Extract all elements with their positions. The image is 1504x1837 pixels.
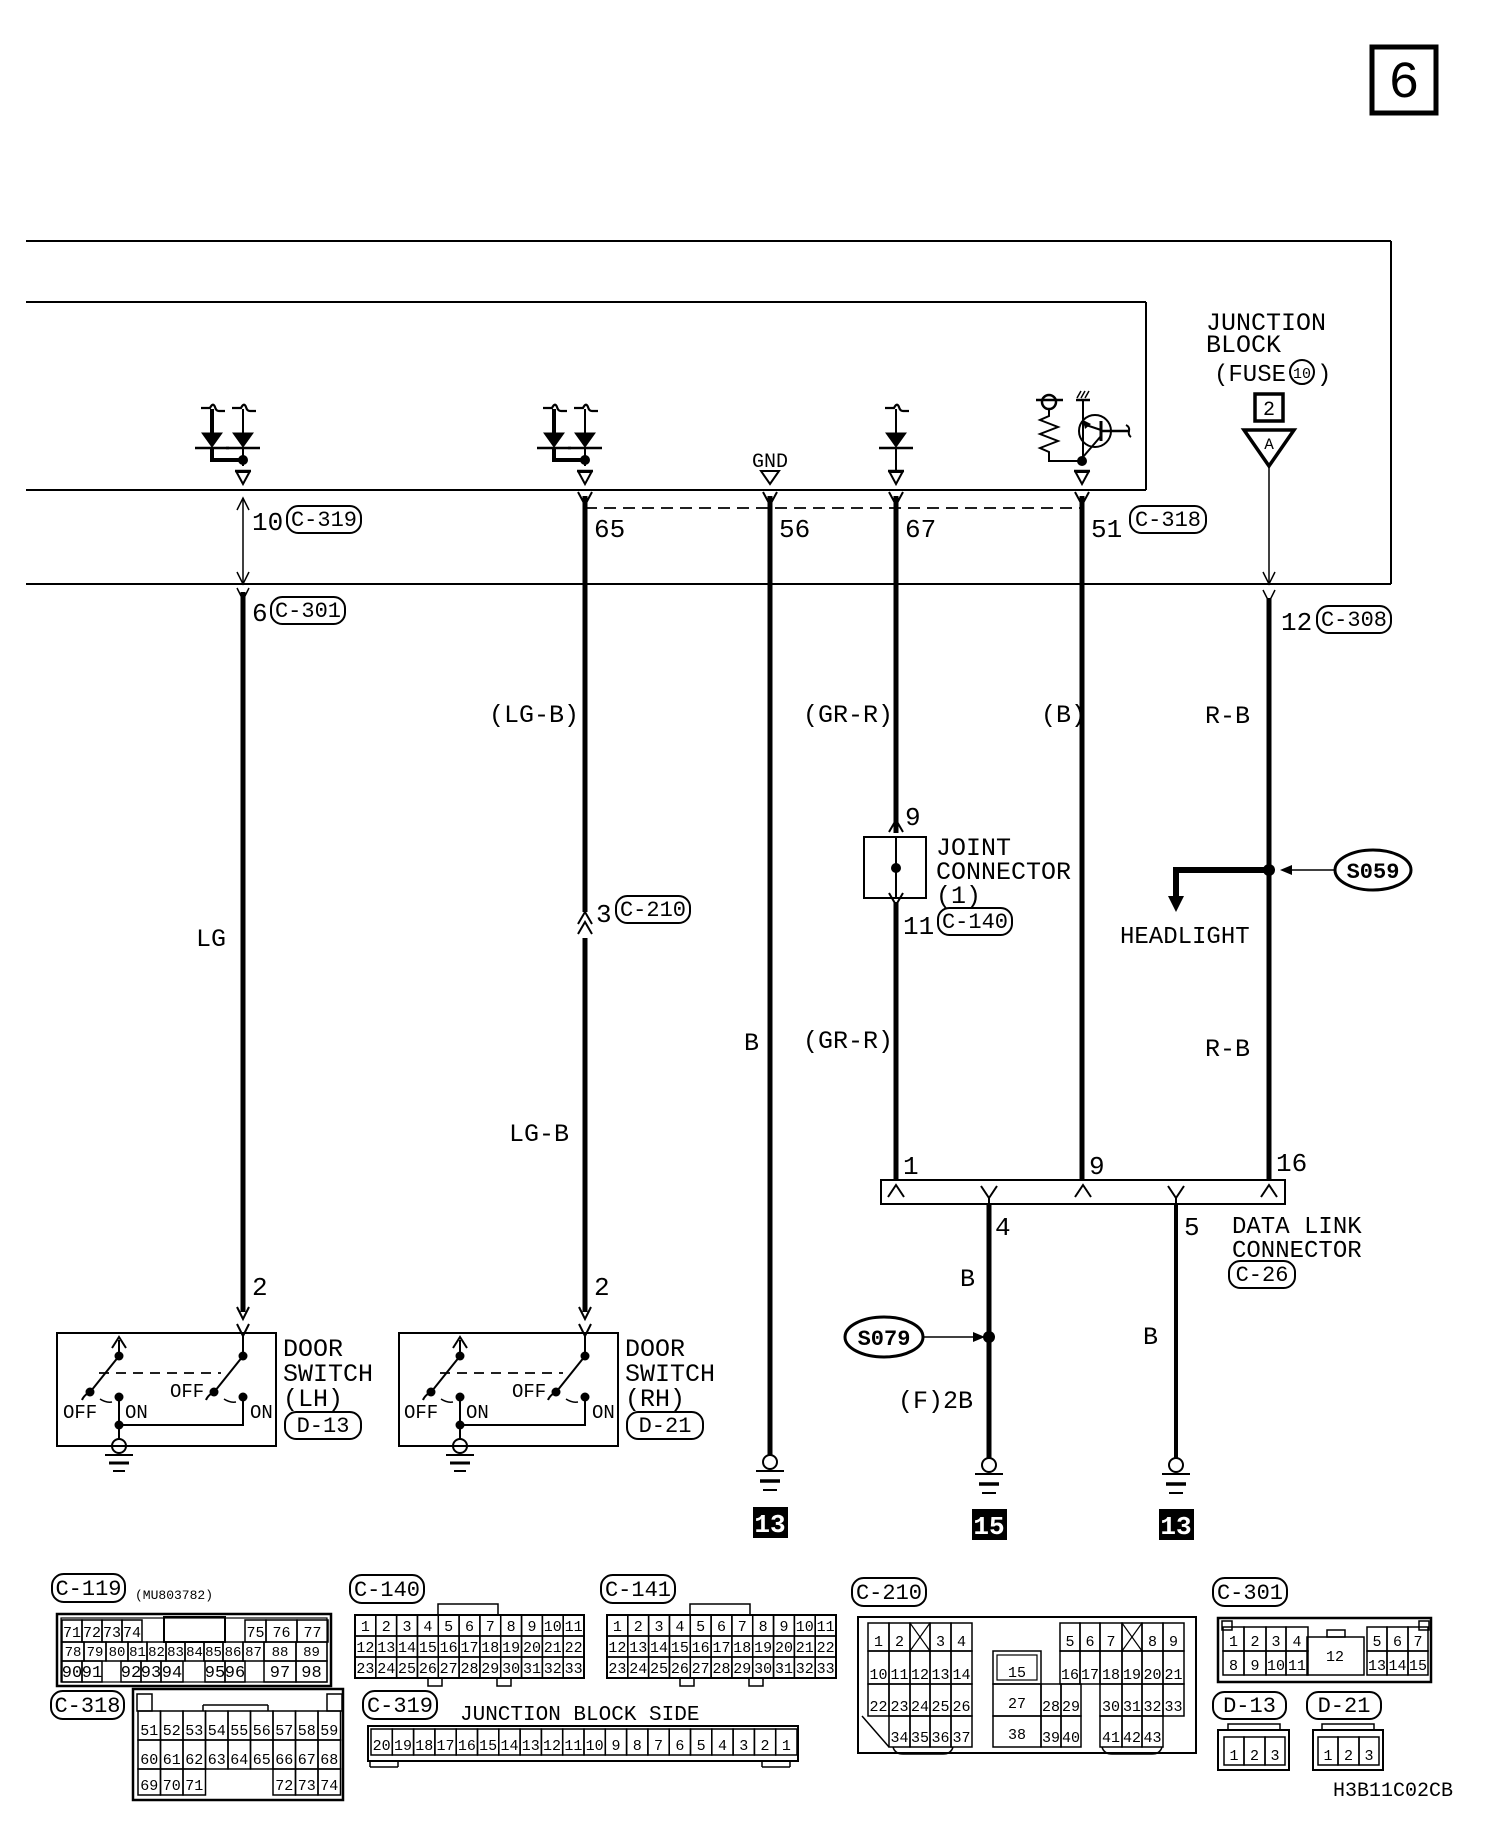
door switch LH internal wire to ground [119,1397,243,1425]
wire: inner module top line [26,301,1146,303]
svg-text:69: 69 [140,1778,158,1795]
svg-text:R-B: R-B [1205,1035,1250,1064]
svg-text:55: 55 [230,1723,248,1740]
wire LG (x=243) from C-301 to door switch LH [241,592,246,1312]
svg-text:14: 14 [1388,1658,1406,1675]
svg-text:9: 9 [1169,1634,1178,1651]
svg-text:5: 5 [697,1738,706,1755]
svg-text:15: 15 [973,1512,1004,1542]
svg-text:3: 3 [739,1738,748,1755]
svg-text:42: 42 [1123,1730,1141,1747]
wire from Q1 base to right with curl [1101,430,1128,433]
svg-text:1: 1 [1229,1748,1238,1765]
svg-text:14: 14 [952,1667,970,1684]
svg-text:81: 81 [129,1645,146,1661]
S059 splice label [1335,850,1411,890]
connector C-119 body [57,1614,331,1686]
svg-text:13: 13 [931,1667,949,1684]
svg-text:13: 13 [754,1510,785,1540]
connector ref D-13 [285,1412,361,1439]
svg-text:12: 12 [608,1640,626,1657]
svg-text:91: 91 [82,1664,102,1683]
chevrons where wire enters LH [237,1307,249,1319]
svg-text:11: 11 [903,912,934,942]
svg-text:D-21: D-21 [639,1414,692,1439]
connector C-210 body [858,1617,1196,1753]
svg-text:C-119: C-119 [55,1577,121,1602]
joint connector (1) box [864,837,926,898]
ground for data link pin 4 wire [982,1458,996,1472]
inner module right edge [1145,302,1147,490]
svg-text:3: 3 [1270,1748,1279,1765]
svg-text:32: 32 [796,1661,814,1678]
svg-text:87: 87 [245,1645,262,1661]
svg-text:31: 31 [523,1661,541,1678]
connector ref C-210 [616,896,690,923]
svg-text:25: 25 [650,1661,668,1678]
door switch RH right ON contact [581,1393,590,1402]
svg-text:41: 41 [1102,1730,1120,1747]
ground (internal) below diode pair 1 [235,470,251,473]
svg-text:98: 98 [301,1664,321,1683]
svg-text:26: 26 [671,1661,689,1678]
svg-text:85: 85 [205,1645,222,1661]
svg-text:10: 10 [586,1738,604,1755]
svg-text:6: 6 [252,599,268,629]
svg-text:C-26: C-26 [1236,1263,1289,1288]
transistor Q1 [1079,415,1111,447]
circled 10 fuse number [1290,360,1314,384]
pin 6 crossing chevron on LG wire [237,588,249,600]
svg-text:95: 95 [205,1664,225,1683]
svg-text:H3B11C02CB: H3B11C02CB [1333,1780,1453,1803]
svg-text:31: 31 [1123,1699,1141,1716]
svg-text:3: 3 [1271,1634,1280,1651]
svg-text:3: 3 [403,1619,412,1636]
svg-text:90: 90 [62,1664,82,1683]
wire branch to headlight [1176,870,1269,896]
door switch LH box [57,1333,276,1446]
page ref 13 (pin 5 wire) [1159,1509,1194,1540]
svg-text:S079: S079 [858,1327,911,1352]
svg-text:67: 67 [905,515,936,545]
svg-text:30: 30 [754,1661,772,1678]
svg-text:9: 9 [611,1738,620,1755]
svg-text:C-140: C-140 [942,910,1008,935]
connector ref C-319 [287,506,361,533]
door switch RH ground [453,1439,467,1453]
svg-text:12: 12 [543,1738,561,1755]
svg-text:67: 67 [298,1752,316,1769]
svg-text:10: 10 [796,1619,814,1636]
svg-text:4: 4 [957,1634,966,1651]
svg-text:2: 2 [1250,1748,1259,1765]
svg-text:4: 4 [423,1619,432,1636]
svg-text:12: 12 [356,1640,374,1657]
chevrons where wire enters RH [579,1307,591,1319]
svg-text:8: 8 [1148,1634,1157,1651]
svg-text:4: 4 [995,1213,1011,1243]
svg-text:20: 20 [523,1640,541,1657]
svg-text:6: 6 [1085,1634,1094,1651]
wire B (x=770) from pin 56 down to ground [768,496,773,1455]
svg-text:74: 74 [320,1778,338,1795]
svg-text:70: 70 [163,1778,181,1795]
connector C-319 label [363,1691,437,1719]
svg-text:52: 52 [163,1723,181,1740]
svg-text:ON: ON [466,1402,489,1424]
svg-text:3: 3 [596,900,612,930]
svg-text:34: 34 [890,1730,908,1747]
page ref 15 [972,1509,1007,1540]
door switch RH dashed gang line [440,1372,563,1374]
connector ref C-318 [1130,506,1206,533]
wire from triangle A down to pin 12 [1268,466,1270,584]
svg-text:30: 30 [502,1661,520,1678]
svg-text:78: 78 [65,1645,82,1661]
svg-text:82: 82 [148,1645,165,1661]
svg-text:75: 75 [246,1625,264,1642]
wire: ECU outer box top bus line [26,240,1391,242]
svg-text:64: 64 [230,1752,248,1769]
chevron below joint connector [889,893,903,905]
door switch LH left blade [91,1356,119,1391]
ECU outer box right edge [1390,241,1392,584]
svg-text:33: 33 [565,1661,583,1678]
svg-text:13: 13 [522,1738,540,1755]
connector D-13 body [1218,1730,1289,1770]
node: diode pair 2 junction [580,455,590,465]
svg-text:14: 14 [398,1640,416,1657]
svg-text:2: 2 [1250,1634,1259,1651]
svg-text:C-210: C-210 [620,898,686,923]
svg-text:6: 6 [465,1619,474,1636]
svg-text:22: 22 [869,1699,887,1716]
door switch LH left ON contact [115,1393,124,1402]
svg-text:3: 3 [655,1619,664,1636]
svg-text:56: 56 [253,1723,271,1740]
svg-text:39: 39 [1042,1730,1060,1747]
svg-text:68: 68 [320,1752,338,1769]
diode D3 [885,405,909,411]
svg-text:6: 6 [1393,1634,1402,1651]
svg-text:76: 76 [272,1625,290,1642]
svg-text:29: 29 [733,1661,751,1678]
connector D-21 body [1313,1730,1383,1770]
svg-text:): ) [1317,362,1331,389]
svg-text:ON: ON [592,1402,615,1424]
svg-text:OFF: OFF [170,1381,204,1403]
svg-text:17: 17 [1081,1667,1099,1684]
triangle A connector symbol [1244,430,1294,466]
svg-text:16: 16 [440,1640,458,1657]
connector ref C-140 [938,908,1012,935]
connector D-21 label [1307,1692,1381,1719]
diode D2b [574,405,598,411]
door switch LH dashed gang line [99,1372,221,1374]
connector C-140 label [350,1575,424,1603]
svg-text:B: B [960,1265,975,1294]
ground (internal) below transistor Q1 [1074,470,1090,473]
svg-text:5: 5 [1065,1634,1074,1651]
svg-text:OFF: OFF [404,1402,438,1424]
wire B pin 5 from data link to ground [1174,1204,1178,1458]
wire R-B (x=1269) from pin 12 to data link pin 16 [1267,598,1272,1180]
svg-text:5: 5 [1184,1213,1200,1243]
svg-text:20: 20 [1143,1667,1161,1684]
svg-text:24: 24 [911,1699,929,1716]
wire B pin 4 from data link to ground [987,1204,992,1458]
svg-text:84: 84 [186,1645,203,1661]
svg-text:1: 1 [782,1738,791,1755]
svg-text:27: 27 [440,1661,458,1678]
svg-text:3: 3 [1364,1748,1373,1765]
svg-text:21: 21 [544,1640,562,1657]
svg-text:18: 18 [1102,1667,1120,1684]
fuse box 2 symbol [1255,394,1283,421]
svg-text:17: 17 [437,1738,455,1755]
door switch RH right blade [557,1356,585,1391]
svg-text:60: 60 [140,1752,158,1769]
connector ref C-26 [1229,1261,1295,1288]
svg-text:B: B [1143,1323,1158,1352]
wire B (x=1082) from pin 51 to data link pin 9 [1080,496,1085,1180]
svg-text:51: 51 [140,1723,158,1740]
svg-text:2: 2 [1344,1748,1353,1765]
svg-text:(FUSE: (FUSE [1214,362,1286,389]
svg-text:1: 1 [874,1634,883,1651]
svg-text:1: 1 [903,1152,919,1182]
svg-text:S059: S059 [1347,860,1400,885]
svg-text:(LH): (LH) [283,1385,343,1414]
svg-text:74: 74 [123,1625,141,1642]
arrow from S079 to splice [923,1336,976,1338]
svg-text:7: 7 [486,1619,495,1636]
svg-text:JUNCTION BLOCK SIDE: JUNCTION BLOCK SIDE [460,1704,699,1727]
chevron above joint connector [889,820,903,832]
svg-text:(LG-B): (LG-B) [489,701,579,730]
svg-text:36: 36 [931,1730,949,1747]
svg-text:7: 7 [654,1738,663,1755]
svg-text:35: 35 [911,1730,929,1747]
svg-text:18: 18 [733,1640,751,1657]
svg-text:C-318: C-318 [54,1694,120,1719]
pin 12 crossing chevrons on R-B wire [1263,572,1275,584]
svg-text:96: 96 [225,1664,245,1683]
svg-text:25: 25 [398,1661,416,1678]
svg-text:72: 72 [83,1625,101,1642]
svg-text:11: 11 [564,1738,582,1755]
svg-text:17: 17 [712,1640,730,1657]
door switch RH left pole arrow [459,1340,461,1355]
svg-text:7: 7 [1413,1634,1422,1651]
svg-text:40: 40 [1062,1730,1080,1747]
svg-text:DATA LINK: DATA LINK [1232,1214,1362,1241]
node S059 splice on R-B wire [1263,864,1275,876]
svg-text:A: A [1264,436,1274,454]
svg-text:8: 8 [633,1738,642,1755]
door switch LH ground [112,1439,126,1453]
diode D1b [232,405,256,411]
svg-text:9: 9 [905,803,921,833]
svg-text:57: 57 [275,1723,293,1740]
door switch RH left blade [432,1356,460,1391]
wire LG-B (x=585) from pin 65 down to door switch RH [583,496,588,912]
ground (internal) below diode D3 [888,470,904,473]
wire GR-R (x=896) from pin 67 to joint connector [894,496,899,833]
svg-text:16: 16 [692,1640,710,1657]
svg-text:1: 1 [613,1619,622,1636]
svg-text:LG: LG [196,925,226,954]
svg-text:30: 30 [1102,1699,1120,1716]
svg-text:92: 92 [121,1664,141,1683]
svg-text:16: 16 [1276,1149,1307,1179]
svg-text:10: 10 [1293,366,1311,383]
wire 67 (GR-R) top chevron [889,492,903,505]
svg-text:2: 2 [761,1738,770,1755]
svg-text:88: 88 [272,1645,289,1661]
svg-text:4: 4 [718,1738,727,1755]
svg-text:51: 51 [1091,515,1122,545]
svg-text:15: 15 [479,1738,497,1755]
connector C-210 label [852,1578,926,1606]
svg-text:32: 32 [544,1661,562,1678]
wire 56 (B) top chevron [763,492,777,505]
svg-text:15: 15 [419,1640,437,1657]
svg-text:2: 2 [634,1619,643,1636]
svg-text:10: 10 [544,1619,562,1636]
svg-text:4: 4 [1292,1634,1301,1651]
svg-text:3: 3 [936,1634,945,1651]
svg-text:(1): (1) [936,882,981,911]
svg-text:38: 38 [1008,1727,1026,1744]
wire through joint connector [895,837,897,898]
svg-text:80: 80 [109,1645,126,1661]
wire 51 (B) top chevron [1075,492,1089,505]
svg-text:5: 5 [444,1619,453,1636]
diode D1a (interior lamp module) [201,405,225,411]
svg-text:5: 5 [1372,1634,1381,1651]
arrow from S059 to splice [1290,869,1336,871]
svg-text:10: 10 [869,1667,887,1684]
page number box 6 [1372,47,1436,113]
svg-text:8: 8 [1229,1658,1238,1675]
svg-text:HEADLIGHT: HEADLIGHT [1120,924,1250,951]
double chevron at C-210 on LG-B wire [578,912,592,924]
svg-text:13: 13 [629,1640,647,1657]
svg-text:29: 29 [1062,1699,1080,1716]
svg-text:11: 11 [1288,1658,1306,1675]
svg-text:10: 10 [1267,1658,1285,1675]
svg-text:BLOCK: BLOCK [1206,331,1281,360]
svg-text:C-319: C-319 [291,508,357,533]
svg-text:21: 21 [796,1640,814,1657]
svg-text:8: 8 [507,1619,516,1636]
svg-text:9: 9 [1089,1152,1105,1182]
svg-text:19: 19 [754,1640,772,1657]
svg-text:C-319: C-319 [367,1694,433,1719]
connector C-141 label [601,1575,675,1603]
svg-text:12: 12 [1326,1649,1344,1666]
svg-text:6: 6 [717,1619,726,1636]
wire from D3 to pin 67 [895,448,897,470]
svg-text:C-308: C-308 [1321,608,1387,633]
wire GR-R (x=896) from joint connector to data link pin 1 [894,902,899,1180]
svg-text:2: 2 [382,1619,391,1636]
svg-text:(GR-R): (GR-R) [803,701,893,730]
connector C-301 label [1213,1578,1287,1606]
svg-text:20: 20 [373,1738,391,1755]
connector ref C-308 [1317,606,1391,633]
svg-text:31: 31 [775,1661,793,1678]
connector C-140 bottom feet [428,1678,442,1686]
svg-text:79: 79 [87,1645,104,1661]
connector C-301 body [1218,1618,1431,1682]
svg-text:66: 66 [275,1752,293,1769]
svg-text:94: 94 [162,1664,182,1683]
svg-text:13: 13 [377,1640,395,1657]
svg-text:9: 9 [1250,1658,1259,1675]
door switch RH internal wire to ground [460,1397,585,1425]
connector C-319 body [368,1726,798,1761]
svg-text:C-141: C-141 [605,1578,671,1603]
svg-text:65: 65 [253,1752,271,1769]
svg-text:4: 4 [675,1619,684,1636]
ground (internal) GND pin 56 [761,471,779,484]
svg-text:(F)2B: (F)2B [898,1387,973,1416]
wire pin 10 arrow (C-319 to C-301) [242,498,244,584]
wire joining D2a and D2b cathodes [552,448,556,460]
svg-text:C-140: C-140 [354,1578,420,1603]
svg-text:27: 27 [692,1661,710,1678]
svg-text:20: 20 [775,1640,793,1657]
svg-text:16: 16 [1061,1667,1079,1684]
svg-text:97: 97 [270,1664,290,1683]
svg-text:89: 89 [303,1645,320,1661]
svg-text:32: 32 [1143,1699,1161,1716]
svg-text:7: 7 [738,1619,747,1636]
wire: ECU outer box bottom bus line [26,583,1391,585]
svg-text:24: 24 [377,1661,395,1678]
svg-text:13: 13 [1160,1512,1191,1542]
wire from R1 to emitter node [1049,457,1080,461]
svg-text:5: 5 [696,1619,705,1636]
resistor R1 [1040,409,1058,457]
svg-text:17: 17 [460,1640,478,1657]
svg-text:13: 13 [1368,1658,1386,1675]
connector C-318 body [133,1689,343,1800]
svg-text:28: 28 [460,1661,478,1678]
svg-text:25: 25 [931,1699,949,1716]
svg-text:26: 26 [952,1699,970,1716]
svg-text:1: 1 [1229,1634,1238,1651]
svg-text:29: 29 [481,1661,499,1678]
door switch LH right blade [215,1356,243,1391]
svg-text:11: 11 [817,1619,835,1636]
svg-text:C-318: C-318 [1135,508,1201,533]
svg-text:63: 63 [208,1752,226,1769]
svg-text:24: 24 [629,1661,647,1678]
svg-text:8: 8 [759,1619,768,1636]
ground for wire 56 [763,1455,777,1469]
svg-text:C-301: C-301 [275,599,341,624]
ground for data link pin 5 wire [1169,1458,1183,1472]
chassis mark above transistor Q1 [1076,399,1090,402]
S079 splice label [845,1317,923,1357]
svg-text:ON: ON [125,1402,148,1424]
door switch LH right pole [239,1352,248,1361]
svg-text:2: 2 [895,1634,904,1651]
